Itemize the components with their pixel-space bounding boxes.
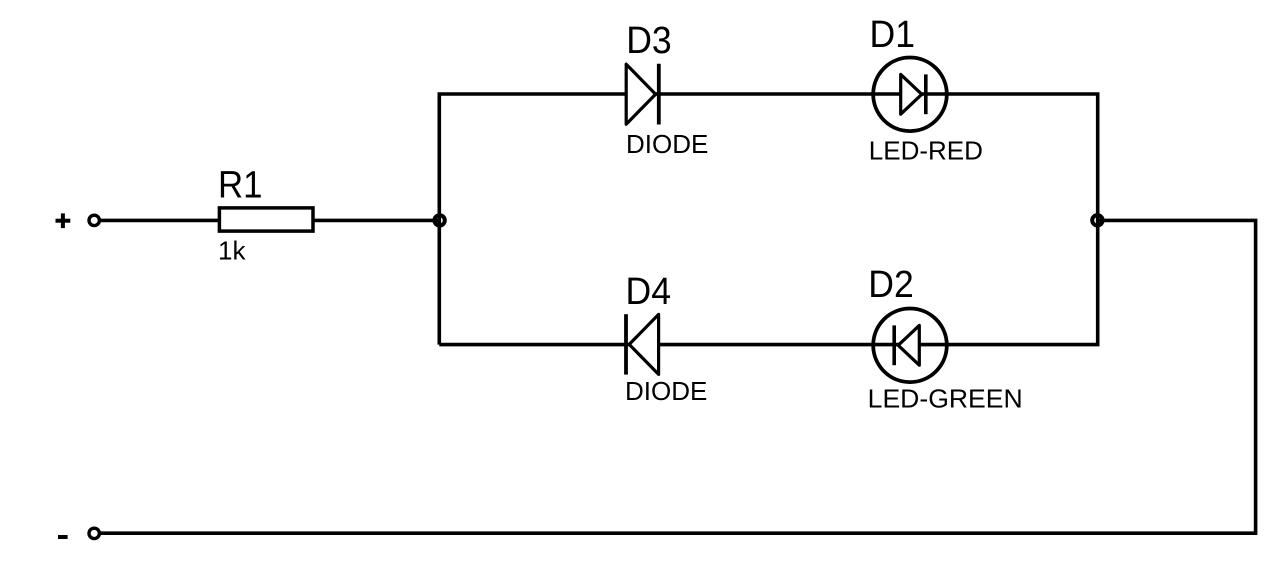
svg-text:DIODE: DIODE <box>625 376 707 406</box>
svg-text:LED-GREEN: LED-GREEN <box>868 384 1023 414</box>
svg-text:D4: D4 <box>626 271 672 313</box>
svg-text:D1: D1 <box>870 14 916 56</box>
svg-text:D2: D2 <box>868 264 914 306</box>
svg-text:LED-RED: LED-RED <box>869 136 983 166</box>
svg-text:D3: D3 <box>626 20 672 62</box>
svg-text:1k: 1k <box>218 236 246 266</box>
svg-text:R1: R1 <box>218 165 263 207</box>
svg-text:DIODE: DIODE <box>626 129 708 159</box>
